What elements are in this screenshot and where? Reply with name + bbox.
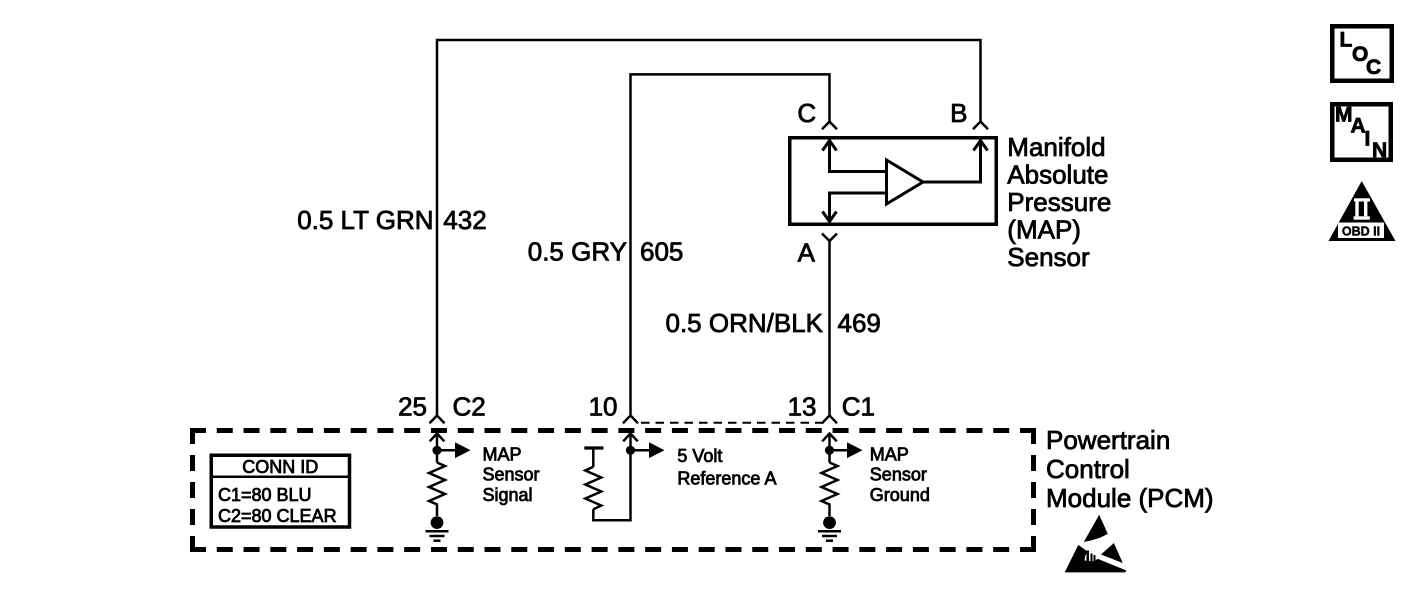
svg-text:B: B [950,98,967,128]
svg-text:469: 469 [838,308,881,338]
svg-text:Sensor: Sensor [483,465,540,485]
svg-text:0.5 LT GRN: 0.5 LT GRN [297,205,433,235]
svg-text:Control: Control [1046,454,1130,484]
svg-text:C: C [797,98,816,128]
svg-text:I: I [1365,128,1371,151]
svg-text:Manifold: Manifold [1007,132,1105,162]
svg-text:A: A [798,238,816,268]
svg-text:C2=80 CLEAR: C2=80 CLEAR [218,506,337,526]
svg-text:MAP: MAP [483,444,522,464]
svg-text:Ground: Ground [870,485,930,505]
svg-text:10: 10 [589,392,618,422]
svg-text:Sensor: Sensor [1007,242,1090,272]
svg-text:25: 25 [398,392,427,422]
svg-text:5 Volt: 5 Volt [677,446,722,466]
svg-text:0.5 GRY: 0.5 GRY [528,237,627,267]
svg-text:432: 432 [443,205,486,235]
svg-text:13: 13 [788,392,817,422]
svg-text:N: N [1372,139,1387,162]
svg-text:605: 605 [640,237,683,267]
svg-text:C1=80 BLU: C1=80 BLU [218,485,312,505]
svg-text:A: A [1351,114,1366,137]
svg-text:C1: C1 [842,392,875,422]
svg-text:C: C [1366,56,1381,79]
svg-text:Signal: Signal [483,485,533,505]
svg-text:0.5 ORN/BLK: 0.5 ORN/BLK [665,308,823,338]
svg-text:Powertrain: Powertrain [1046,425,1170,455]
svg-text:Pressure: Pressure [1007,187,1111,217]
svg-text:C2: C2 [453,392,486,422]
svg-text:CONN ID: CONN ID [242,457,318,477]
svg-text:Reference A: Reference A [677,468,776,488]
svg-text:(MAP): (MAP) [1007,215,1081,245]
svg-text:OBD II: OBD II [1342,224,1380,238]
svg-text:L: L [1340,29,1353,52]
svg-text:Module (PCM): Module (PCM) [1046,483,1214,513]
svg-text:MAP: MAP [870,444,909,464]
svg-text:Absolute: Absolute [1007,160,1108,190]
svg-text:Sensor: Sensor [870,465,927,485]
